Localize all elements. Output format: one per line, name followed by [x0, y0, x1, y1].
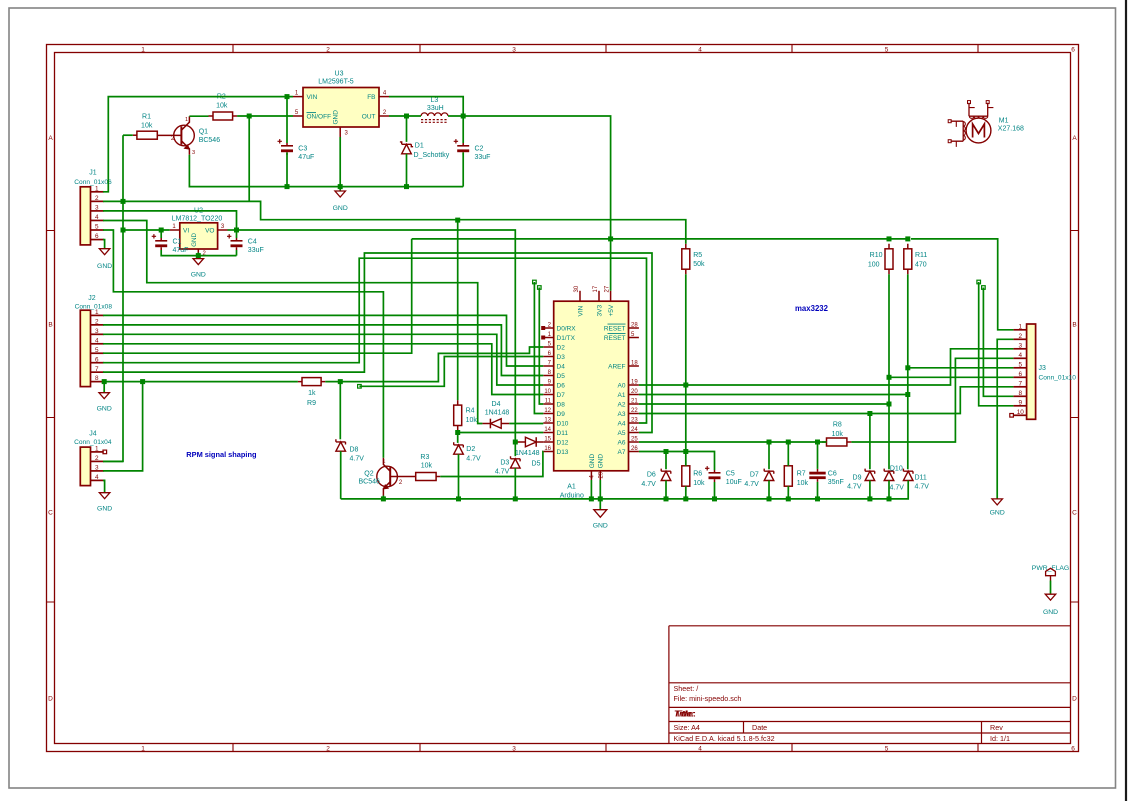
wire R11 to D11 — [907, 274, 909, 469]
svg-text:RPM signal shaping: RPM signal shaping — [186, 450, 257, 459]
svg-text:A3: A3 — [618, 411, 626, 418]
wire D3 top — [514, 442, 516, 456]
U3 pin 2 OUT — [379, 110, 389, 116]
junction — [196, 253, 201, 258]
svg-text:GND: GND — [589, 454, 596, 469]
junction — [456, 496, 461, 501]
resistor R6 — [682, 461, 705, 491]
svg-text:21: 21 — [631, 398, 638, 404]
svg-text:1N4148: 1N4148 — [515, 450, 540, 457]
svg-text:D: D — [48, 695, 53, 702]
svg-text:10k: 10k — [797, 480, 809, 487]
svg-text:A6: A6 — [618, 439, 626, 446]
junction — [664, 449, 669, 454]
svg-text:1: 1 — [382, 459, 385, 465]
svg-text:Rev: Rev — [990, 723, 1003, 732]
svg-text:R7: R7 — [797, 471, 806, 478]
svg-text:47uF: 47uF — [173, 247, 189, 254]
connector J2 Conn_01x08 — [75, 295, 113, 387]
svg-text:B: B — [1072, 321, 1076, 328]
svg-text:A1: A1 — [567, 483, 576, 490]
svg-text:28: 28 — [631, 322, 638, 328]
svg-text:GND: GND — [598, 454, 605, 469]
svg-text:7: 7 — [1019, 380, 1023, 387]
svg-text:RESET: RESET — [604, 325, 626, 332]
svg-text:33uH: 33uH — [427, 105, 444, 112]
junction — [285, 184, 290, 189]
ground under J1 — [97, 249, 112, 270]
J4 pin 4 — [91, 474, 104, 481]
svg-text:4.7V: 4.7V — [889, 484, 904, 491]
dangling wire end — [533, 280, 537, 284]
svg-text:D9: D9 — [853, 474, 862, 481]
svg-text:1: 1 — [295, 91, 299, 97]
svg-text:8: 8 — [95, 375, 99, 382]
svg-text:R4: R4 — [466, 408, 475, 415]
svg-text:24: 24 — [631, 427, 638, 433]
wire D4 to D10 pin — [509, 423, 543, 425]
capacitor C6 35nF — [809, 469, 843, 486]
svg-text:5: 5 — [1019, 361, 1023, 368]
svg-text:19: 19 — [631, 379, 638, 385]
diode D5 1N4148 — [515, 437, 543, 467]
junction — [664, 496, 669, 501]
svg-text:D7: D7 — [750, 472, 759, 479]
svg-text:A: A — [48, 135, 53, 142]
zener diode D7 — [744, 469, 773, 488]
zener diode D11 — [903, 469, 929, 491]
junction — [121, 228, 126, 233]
A1 pin 2 D0/RX — [541, 322, 576, 332]
J3 pin 4 — [1013, 352, 1026, 359]
svg-text:D2: D2 — [466, 446, 475, 453]
dangling wire end — [977, 280, 981, 284]
A1 pin 27 +5V — [605, 285, 615, 316]
wire D7 top — [768, 442, 770, 469]
wire dangling to D8 pin — [539, 288, 543, 405]
wire J3 pin2 to GND — [997, 339, 1013, 499]
A1 pin 5 D2 — [543, 341, 565, 351]
wire J4 pin3 riser — [103, 382, 143, 471]
svg-text:M1: M1 — [999, 118, 1009, 125]
svg-text:D0/RX: D0/RX — [557, 325, 577, 332]
A1 pin 7 D4 — [543, 360, 565, 370]
A1 pin 30 VIN — [574, 285, 584, 316]
svg-text:2: 2 — [95, 455, 99, 462]
svg-text:GND: GND — [97, 406, 112, 413]
ground under J2 — [97, 393, 112, 413]
junction — [767, 440, 772, 445]
svg-text:GND: GND — [333, 110, 340, 125]
svg-text:10uF: 10uF — [726, 479, 742, 486]
svg-text:15: 15 — [544, 436, 551, 442]
wire J1 pin3 down — [103, 211, 237, 230]
A1 pin 18 AREF — [608, 360, 639, 370]
wire D10 bottom — [888, 481, 890, 499]
svg-text:J2: J2 — [88, 295, 96, 302]
zener diode D3 — [495, 456, 520, 475]
junction — [513, 496, 518, 501]
A1 pin 5 RESET — [604, 332, 639, 342]
resistor R7 — [784, 461, 808, 491]
svg-text:5: 5 — [885, 47, 889, 54]
svg-text:25: 25 — [631, 436, 638, 442]
junction — [338, 379, 343, 384]
wire D7 bottom — [768, 481, 770, 499]
svg-text:2: 2 — [95, 318, 99, 325]
svg-text:GND: GND — [593, 523, 608, 530]
svg-text:9: 9 — [1019, 399, 1023, 406]
svg-text:4.7V: 4.7V — [495, 469, 510, 476]
svg-text:5: 5 — [295, 110, 299, 116]
svg-text:3: 3 — [192, 150, 195, 156]
U3 pin 4 FB — [379, 91, 389, 97]
wire A7 net to C5 — [639, 452, 715, 471]
J3 pin 5 — [1013, 361, 1026, 368]
wire A6 net — [639, 441, 827, 443]
J1 pin 3 — [91, 205, 104, 212]
svg-text:6: 6 — [95, 356, 99, 363]
wire A0 net to J3 pin3 — [639, 349, 1014, 385]
wire R9 to D2 pin — [325, 347, 543, 382]
svg-text:Conn_01x10: Conn_01x10 — [1039, 375, 1077, 382]
wire R6 bottom — [685, 486, 687, 499]
J1 pin 2 — [91, 195, 104, 202]
svg-text:Conn_01x06: Conn_01x06 — [74, 179, 112, 186]
J2 pin 6 — [91, 356, 104, 363]
zener diode D6 — [641, 469, 670, 488]
svg-text:+5V: +5V — [608, 304, 615, 316]
svg-text:D2: D2 — [557, 344, 566, 351]
junction — [455, 218, 460, 223]
svg-text:R10: R10 — [870, 252, 883, 259]
J1 pin 5 — [91, 224, 104, 231]
svg-text:33uF: 33uF — [475, 154, 491, 161]
ground under U2 — [191, 259, 206, 279]
svg-text:A7: A7 — [618, 449, 626, 456]
wire +5V rail R10-R11 — [889, 238, 908, 240]
svg-text:2: 2 — [399, 480, 403, 486]
svg-text:Q1: Q1 — [199, 129, 208, 136]
junction — [786, 496, 791, 501]
svg-text:D10: D10 — [890, 465, 903, 472]
wire U3 GND pin down — [339, 137, 341, 191]
wire D8 top — [339, 382, 341, 440]
wire J2 pin3 to D6 pin — [103, 334, 543, 385]
wire D8 bottom — [340, 451, 342, 499]
svg-text:A5: A5 — [618, 430, 626, 437]
wire C1 bottom rail — [161, 250, 236, 256]
svg-text:1: 1 — [141, 47, 145, 54]
wire J1 pin2 GND run to R5 — [103, 201, 686, 243]
junction — [905, 236, 910, 241]
wire A1 GND pin 29 drop — [599, 480, 601, 510]
J3 pin 8 — [1013, 390, 1026, 397]
wire D2 bottom — [458, 454, 460, 499]
svg-text:A4: A4 — [618, 420, 626, 427]
J1 pin 1 — [91, 185, 104, 192]
svg-text:D3: D3 — [500, 459, 509, 466]
svg-text:3: 3 — [95, 328, 99, 335]
junction — [404, 114, 409, 119]
A1 pin 16 D13 — [543, 446, 569, 456]
A1 pin 26 A7 — [618, 446, 639, 456]
svg-text:4.7V: 4.7V — [847, 484, 862, 491]
J4 pin 3 — [91, 465, 104, 472]
A1 pin 25 A6 — [618, 436, 639, 446]
svg-text:10k: 10k — [216, 103, 228, 110]
A1 pin 29 GND — [598, 454, 605, 480]
svg-text:1N4148: 1N4148 — [485, 409, 510, 416]
svg-text:L3: L3 — [431, 97, 439, 104]
A1 pin 14 D11 — [543, 427, 568, 437]
J3 pin 7 — [1013, 380, 1026, 387]
wire to D11 pin — [458, 432, 544, 434]
svg-text:D4: D4 — [492, 401, 501, 408]
A1 pin 13 D10 — [543, 417, 569, 427]
junction — [159, 228, 164, 233]
svg-text:30: 30 — [574, 285, 580, 292]
svg-text:D4: D4 — [557, 363, 566, 370]
microcontroller module A1 Arduino — [554, 301, 629, 499]
svg-text:D: D — [1072, 695, 1077, 702]
svg-text:13: 13 — [544, 417, 551, 423]
A1 pin 20 A1 — [618, 389, 639, 399]
junction — [338, 184, 343, 189]
junction — [285, 94, 290, 99]
junction — [683, 449, 688, 454]
svg-text:U3: U3 — [335, 71, 344, 78]
svg-text:1k: 1k — [308, 390, 316, 397]
J3 pin 10 — [1013, 409, 1026, 416]
svg-text:47uF: 47uF — [298, 154, 314, 161]
wire J4 pin4 to GND — [103, 480, 105, 492]
svg-text:1: 1 — [95, 446, 99, 453]
svg-text:1: 1 — [172, 224, 176, 230]
svg-text:3: 3 — [512, 47, 516, 54]
svg-text:Title:: Title: — [676, 709, 697, 719]
svg-text:3: 3 — [1019, 342, 1023, 349]
wire J2 pin7 to A5 — [103, 253, 652, 433]
A1 pin 19 A0 — [618, 379, 639, 389]
A1 pin 10 D7 — [543, 389, 565, 399]
svg-text:1: 1 — [95, 185, 99, 192]
wire C5 bottom — [714, 482, 716, 499]
svg-text:C: C — [1072, 509, 1077, 516]
svg-text:C1: C1 — [173, 239, 182, 246]
wire U2 VO — [228, 229, 237, 231]
svg-text:FB: FB — [367, 94, 375, 101]
A1 pin 22 A3 — [618, 408, 639, 418]
capacitor C2 — [454, 139, 491, 161]
svg-text:6: 6 — [1071, 746, 1075, 753]
inductor L3 33uH — [421, 97, 448, 123]
svg-text:12: 12 — [544, 408, 551, 414]
junction — [683, 383, 688, 388]
J2 pin 5 — [91, 347, 104, 354]
wire R4 to D2 — [457, 431, 459, 443]
svg-text:C: C — [48, 509, 53, 516]
svg-text:C5: C5 — [726, 471, 735, 478]
A1 pin 28 RESET — [604, 322, 639, 332]
wire R2 to U3 ON/OFF — [237, 115, 293, 117]
wire D6 bottom — [665, 481, 667, 499]
capacitor C5 — [705, 466, 742, 486]
J3 pin 1 — [1013, 323, 1026, 330]
svg-text:2: 2 — [383, 110, 387, 116]
svg-text:D6: D6 — [557, 382, 566, 389]
svg-text:D3: D3 — [557, 354, 566, 361]
svg-text:14: 14 — [544, 427, 551, 433]
svg-text:BC546: BC546 — [359, 479, 381, 486]
note: RPM signal shaping — [186, 450, 257, 459]
A1 pin 4 GND — [589, 454, 596, 480]
svg-text:D6: D6 — [647, 472, 656, 479]
wire PWR_FLAG to GND — [1050, 581, 1052, 595]
svg-text:10k: 10k — [421, 463, 433, 470]
stepper motor M1 X27.168 — [948, 101, 1024, 147]
capacitor C4 — [227, 234, 264, 254]
wire A2 net — [639, 403, 889, 405]
transistor Q1 BC546 — [157, 116, 220, 156]
zener diode D2 — [454, 442, 481, 462]
svg-text:4: 4 — [589, 475, 595, 479]
A1 pin 15 D12 — [543, 436, 569, 446]
wire R7 top — [787, 442, 789, 466]
svg-text:6: 6 — [95, 233, 99, 240]
wire J1 pin5 to Q2 collector — [103, 230, 383, 458]
U3 pin 3 GND — [340, 127, 348, 137]
J4 pin 1 — [91, 446, 104, 453]
connector J4 Conn_01x04 — [74, 430, 112, 485]
J3 pin 3 — [1013, 342, 1026, 349]
wire A3 net to J3 pin7 — [639, 387, 1014, 414]
J2 pin 8 — [91, 375, 104, 382]
junction — [404, 184, 409, 189]
wire +5V rail to J3 pin1 — [412, 239, 1014, 330]
regulator U2 LM7812_TO220 — [172, 208, 223, 249]
svg-text:GND: GND — [191, 233, 198, 247]
junction — [867, 411, 872, 416]
zener diode D10 — [884, 465, 904, 491]
svg-text:3: 3 — [95, 465, 99, 472]
J1 pin 4 — [91, 214, 104, 221]
wire A1 net — [639, 394, 908, 396]
wire C3 bottom — [286, 152, 288, 186]
svg-text:Conn_01x04: Conn_01x04 — [74, 439, 112, 446]
svg-text:D10: D10 — [557, 420, 569, 427]
junction — [513, 440, 518, 445]
svg-text:5: 5 — [95, 224, 99, 231]
svg-text:20: 20 — [631, 389, 638, 395]
wire U3 FB loop — [389, 97, 463, 116]
A1 pin 1 D1/TX — [541, 332, 575, 342]
junction — [712, 496, 717, 501]
A1 pin 24 A5 — [618, 427, 639, 437]
svg-text:10k: 10k — [832, 431, 844, 438]
wire J1 pin4 to D4 — [103, 221, 482, 424]
junction — [598, 496, 603, 501]
svg-text:22: 22 — [631, 408, 638, 414]
wire dangling to D3 pin — [359, 357, 543, 387]
junction — [247, 114, 252, 119]
dangling wire end — [358, 385, 362, 389]
svg-text:8: 8 — [1019, 390, 1023, 397]
J4 pin 2 — [91, 455, 104, 462]
svg-text:3: 3 — [512, 746, 516, 753]
J2 pin 1 — [91, 309, 104, 316]
svg-text:33uF: 33uF — [248, 247, 264, 254]
svg-text:D7: D7 — [557, 392, 566, 399]
wire U2 GND — [197, 253, 199, 256]
connector J3 Conn_01x10 — [1027, 324, 1077, 419]
wire J2 pin6 to A4 — [103, 258, 647, 423]
diode D4 1N4148 — [482, 401, 509, 429]
svg-text:Date: Date — [752, 723, 767, 732]
wire R5 to R6 — [685, 274, 687, 466]
window edge (black right) — [1125, 0, 1127, 801]
wire bottom rail — [341, 481, 909, 499]
wire to J3 pin5 — [908, 367, 1014, 369]
svg-text:3V3: 3V3 — [596, 305, 603, 317]
ground under A1 — [593, 510, 608, 530]
svg-text:GND: GND — [990, 510, 1005, 517]
transistor Q2 BC546 — [359, 458, 416, 496]
A1 pin 11 D8 — [543, 398, 565, 408]
svg-text:3: 3 — [95, 205, 99, 212]
svg-text:VIN: VIN — [577, 305, 584, 316]
junction — [905, 365, 910, 370]
ground under U3 — [333, 191, 348, 212]
wire J2 pin8 GND drop — [103, 382, 105, 393]
svg-text:File: mini-speedo.sch: File: mini-speedo.sch — [674, 694, 742, 703]
wire C2 bottom — [462, 152, 464, 186]
resistor R8 — [822, 421, 851, 446]
svg-text:27: 27 — [605, 285, 611, 292]
ground under PWR_FLAG — [1043, 594, 1058, 616]
junction — [887, 402, 892, 407]
junction — [887, 375, 892, 380]
junction — [887, 236, 892, 241]
A1 pin 9 D6 — [543, 379, 565, 389]
svg-text:23: 23 — [631, 417, 638, 423]
svg-text:D8: D8 — [350, 446, 359, 453]
wire J1 pin1 to U3 VIN — [103, 97, 293, 192]
zener diode D9 — [847, 469, 875, 491]
junction — [815, 496, 820, 501]
svg-text:4.7V: 4.7V — [915, 484, 930, 491]
wire to J3 pin6 — [889, 376, 1013, 378]
junction — [589, 496, 594, 501]
wire D9 top — [869, 414, 871, 470]
connector J1 Conn_01x06 — [74, 169, 112, 245]
capacitor C1 — [152, 234, 189, 254]
junction — [683, 496, 688, 501]
capacitor C3 — [278, 139, 315, 161]
svg-text:6: 6 — [1071, 47, 1075, 54]
svg-text:R6: R6 — [693, 471, 702, 478]
junction — [461, 114, 466, 119]
U2 pin 2 GND — [198, 249, 206, 257]
resistor R1 10k — [133, 114, 157, 140]
wire D1 bottom — [406, 154, 408, 187]
svg-text:D11: D11 — [557, 430, 569, 437]
wire dangling to D9 pin — [534, 282, 543, 414]
svg-text:R1: R1 — [142, 114, 151, 121]
A1 pin 21 A2 — [618, 398, 639, 408]
svg-text:BC546: BC546 — [199, 137, 221, 144]
junction — [121, 199, 126, 204]
